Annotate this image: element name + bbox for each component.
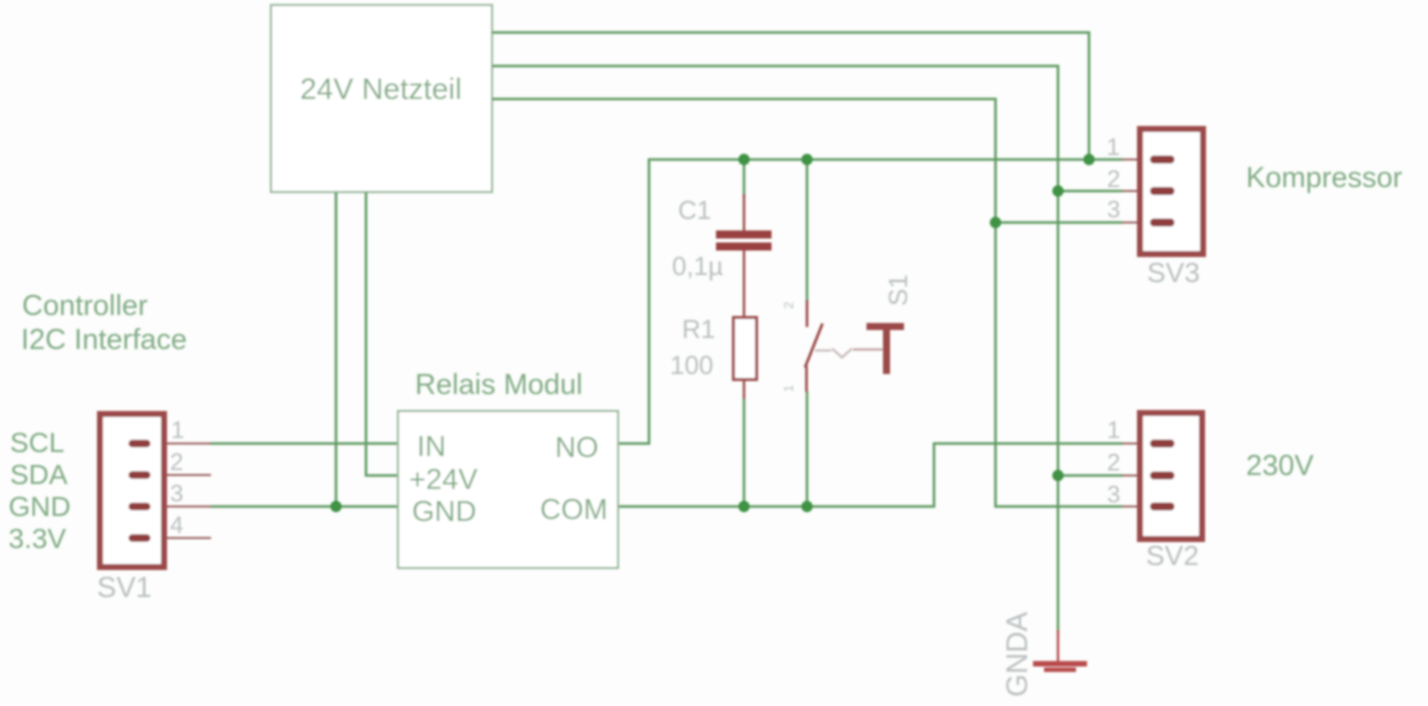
svg-text:1: 1 (1107, 134, 1120, 161)
svg-text:+24V: +24V (409, 464, 478, 496)
wire net GND: netzteil bottom down to GND rail (335, 192, 338, 507)
svg-text:4: 4 (170, 512, 183, 539)
C1 plate top (716, 231, 772, 239)
svg-text:230V: 230V (1246, 450, 1314, 482)
wire stub SV3 pin2 (1058, 190, 1123, 193)
svg-text:Controller: Controller (22, 290, 148, 322)
junction dot COM rail at C1 branch (738, 501, 749, 512)
svg-text:1: 1 (1107, 417, 1120, 444)
connector SV1 (97, 414, 211, 604)
junction dot GND rail at netzteil drop (330, 501, 341, 512)
wire snubber top: rail to C1 (743, 160, 746, 197)
SV1 pin stub 4 (150, 537, 211, 539)
junction dot SV2 pin2 (1052, 470, 1063, 481)
SV2 pin stub 3 (1122, 506, 1152, 508)
svg-text:C1: C1 (678, 195, 711, 225)
svg-text:3: 3 (1107, 482, 1120, 509)
svg-text:NO: NO (555, 432, 599, 464)
junction dot SV3 pin3 (990, 217, 1001, 228)
capacitor C1 (672, 194, 772, 317)
SV2 pin stub 2 (1122, 475, 1152, 477)
junction dot COM rail at S1 branch (801, 501, 812, 512)
SV1 pad 1 (129, 440, 151, 448)
svg-text:2: 2 (781, 302, 796, 309)
wire switch bottom: S1 to COM rail (806, 391, 809, 507)
svg-text:100: 100 (670, 350, 713, 380)
svg-text:GND: GND (412, 496, 476, 528)
junction dot SV3 pin1 (1083, 154, 1094, 165)
SV2 pad 1 (1150, 440, 1175, 448)
junction dot switch top rail (801, 154, 812, 165)
SV1 pad 2 (129, 471, 151, 479)
svg-text:SCL: SCL (10, 427, 64, 458)
SV3 pad 1 (1150, 156, 1175, 164)
SV1 pad 3 (129, 503, 151, 511)
wire net +24V: netzteil bottom to relay +24V (366, 192, 398, 476)
SV1 pin stub 3 (150, 506, 211, 508)
S1 mechanical link vee (832, 349, 852, 358)
S1 top pin stub (806, 300, 809, 327)
power supply box 24V Netzteil (271, 5, 492, 192)
SV3 pin stub 3 (1122, 222, 1152, 224)
svg-text:2: 2 (170, 449, 183, 476)
SV1 pad 4 (129, 534, 151, 542)
S1 mechanical link right (853, 348, 883, 350)
svg-text:GND: GND (9, 491, 71, 522)
wire switch top: rail to S1 (806, 160, 809, 302)
svg-text:2: 2 (1107, 166, 1120, 193)
R1 bottom pin stub (743, 381, 745, 400)
svg-text:3: 3 (170, 481, 183, 508)
junction dot SV3 pin2 (1052, 185, 1063, 196)
svg-text:S1: S1 (883, 274, 913, 306)
GNDA pin stub (1057, 630, 1059, 661)
GNDA bar 1 (1033, 661, 1087, 667)
S1 mechanical link dash left (815, 349, 831, 351)
svg-text:0,1µ: 0,1µ (672, 251, 723, 281)
SV2 pad 2 (1150, 472, 1175, 480)
wire net GND: SV1 pin3 to relay GND (210, 505, 398, 508)
S1 blade (805, 324, 823, 368)
SV1 pin stub 2 (150, 474, 211, 476)
svg-text:24V Netzteil: 24V Netzteil (300, 73, 462, 106)
GNDA bar 2 (1044, 668, 1076, 673)
wire net 230V: netzteil out3 to SV3 pin3 and SV2 pin3 (492, 99, 1123, 507)
S1 actuator tee stem (883, 330, 890, 374)
resistor R1 (670, 314, 757, 399)
wire stub SV3 pin3 (996, 221, 1124, 224)
wire net SCL: SV1 pin1 to relay IN (210, 442, 398, 445)
SV3 pin stub 2 (1122, 190, 1152, 192)
SV2 pin stub 1 (1122, 443, 1152, 445)
svg-text:SDA: SDA (10, 459, 68, 490)
svg-text:IN: IN (417, 431, 446, 463)
SV3 body (1140, 129, 1203, 254)
C1 bottom pin stub (743, 251, 745, 318)
connector SV3 (1107, 129, 1204, 288)
SV2 pad 3 (1150, 503, 1175, 511)
wire net KOMP1: relay NO up to snubber rail and SV3 pin1 (618, 160, 1123, 444)
connector SV2 (1107, 413, 1202, 571)
ground symbol GNDA (1001, 611, 1087, 697)
C1 plate bottom (716, 243, 772, 251)
svg-text:Relais Modul: Relais Modul (415, 369, 583, 401)
S1 bottom pin stub (805, 366, 808, 392)
svg-text:R1: R1 (682, 314, 715, 344)
SV3 pad 3 (1150, 219, 1175, 227)
junction dot snubber top rail (738, 154, 749, 165)
svg-text:SV3: SV3 (1147, 257, 1200, 288)
svg-text:1: 1 (781, 385, 796, 392)
wire net COM: relay COM to SV2 pin1 (618, 444, 1123, 507)
SV1 pin stub 1 (150, 443, 211, 445)
svg-text:1: 1 (171, 417, 184, 444)
svg-text:SV2: SV2 (1146, 540, 1199, 571)
SV2 body (1140, 413, 1202, 539)
svg-text:COM: COM (540, 494, 608, 526)
wire net KOMP1: netzteil out1 to SV3 pin1 vertical (492, 33, 1089, 160)
wire net GNDA: netzteil out2 to SV3 pin2 / SV2 pin2 / ground (492, 66, 1058, 632)
svg-text:GNDA: GNDA (1001, 611, 1034, 697)
svg-text:SV1: SV1 (97, 572, 152, 604)
SV3 pin stub 1 (1122, 159, 1152, 161)
S1 actuator tee bar (867, 323, 905, 330)
C1 top pin stub (743, 194, 745, 231)
svg-text:3.3V: 3.3V (9, 523, 67, 554)
svg-text:I2C Interface: I2C Interface (21, 324, 187, 356)
SV3 pad 2 (1150, 187, 1175, 195)
SV1 body (100, 414, 164, 567)
svg-text:2: 2 (1107, 450, 1120, 477)
svg-text:3: 3 (1107, 197, 1120, 224)
switch S1 (781, 274, 913, 392)
svg-text:Kompressor: Kompressor (1246, 162, 1403, 194)
relay module box Relais Modul (398, 369, 618, 568)
wire stub SV2 pin2 (1058, 474, 1123, 477)
wire snubber bottom: R1 to COM rail (743, 398, 746, 507)
